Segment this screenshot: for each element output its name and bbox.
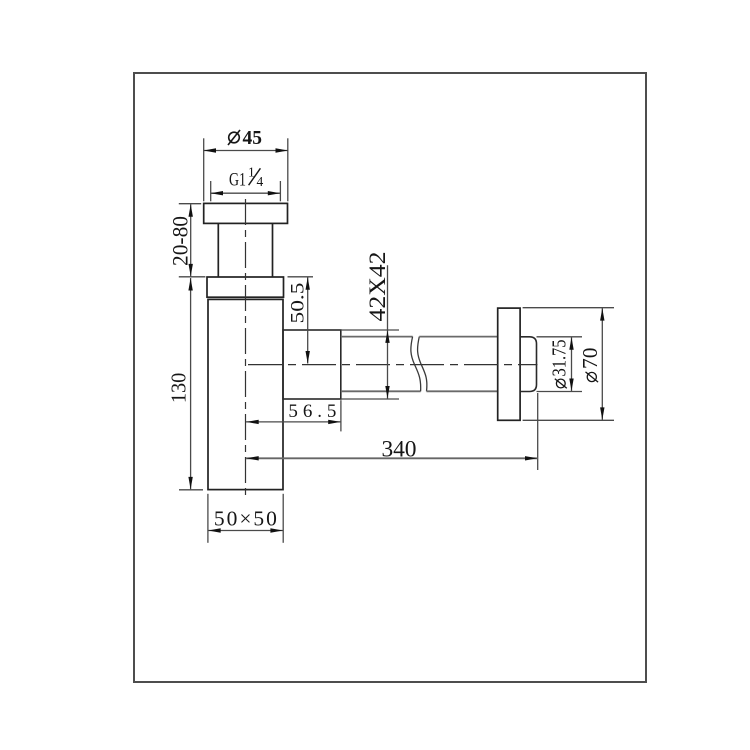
dim G1-1/4 arrow left (211, 191, 224, 195)
svg-text:50.5: 50.5 (288, 283, 309, 324)
trap body cup 50x50 (208, 299, 283, 489)
dim 42X42 arrow up (385, 330, 389, 343)
wall flange disc (498, 308, 520, 420)
svg-text:70: 70 (578, 348, 602, 370)
dim 130 dimension line (190, 278, 192, 489)
dim 340 extension line right (537, 393, 539, 470)
dim D70 arrow down (600, 407, 604, 420)
dim 42X42 extension line top (341, 329, 399, 331)
dim 20-80 extension line top (179, 203, 201, 205)
dim D45 arrow left (204, 148, 217, 152)
dim 42X42 arrow down (385, 386, 389, 399)
dim G1-1/4 arrow right (268, 191, 281, 195)
svg-text:45: 45 (243, 128, 263, 149)
svg-text:340: 340 (382, 436, 417, 462)
dim D31.75 arrow up (569, 337, 573, 350)
dim G1-1/4 fraction slash (249, 168, 261, 185)
outlet pipe segment 1 edges (341, 337, 421, 392)
vertical center line (245, 199, 247, 495)
dim D31.75 extension lines (537, 337, 583, 392)
svg-text:50×50: 50×50 (214, 507, 277, 531)
dim 42X42 dimension line (387, 265, 389, 398)
dim 50.5 arrow up (306, 277, 310, 290)
dim 130 arrow up (188, 278, 192, 291)
dim 340 arrow left (246, 456, 259, 460)
drawing frame border (134, 73, 646, 682)
body top flange (207, 277, 284, 297)
svg-text:G1: G1 (229, 170, 246, 190)
dim 50x50 arrow right (270, 528, 283, 532)
dim D70 dimension line (601, 308, 603, 420)
dim D70 extension lines (523, 308, 614, 421)
svg-text:31.75: 31.75 (549, 340, 571, 377)
dim 50x50 extension lines (208, 494, 283, 543)
dim 20-80 arrow down (189, 264, 193, 277)
dim 130 extension line bottom (179, 489, 203, 491)
dim 50x50 arrow left (208, 528, 221, 532)
svg-text:20-80: 20-80 (168, 216, 193, 266)
dim 340 arrow right (525, 456, 538, 460)
dim G1-1/4 dimension line (210, 192, 280, 194)
dim 130 arrow down (188, 477, 192, 490)
dim 20-80 arrow up (189, 204, 193, 217)
dim 340 dimension line (246, 457, 538, 459)
threaded neck tube (218, 223, 272, 277)
dim 56.5 extension line right (340, 400, 342, 431)
dim 50.5 extension line top (288, 276, 314, 278)
dim D31.75 dimension line (571, 337, 573, 391)
dim 50x50 dimension line (208, 530, 283, 532)
dim G1-1/4 extension lines (211, 181, 281, 201)
dim D70 arrow up (600, 308, 604, 321)
pipe break squiggle (411, 337, 427, 392)
svg-text:130: 130 (167, 373, 191, 404)
dim D45 diameter symbol (228, 130, 240, 145)
dim 20-80 dimension line (190, 204, 192, 276)
dim 56.5 arrow right (328, 420, 341, 424)
dim 42X42 extension line bottom (341, 398, 399, 400)
dim D45 dimension line (203, 150, 288, 152)
dim D45 arrow right (276, 148, 289, 152)
outlet pipe segment 2 edges (419, 337, 497, 392)
dim D31.75 arrow down (569, 379, 573, 392)
top nut flange of bottle trap (204, 203, 288, 223)
shared extension line at body top (179, 276, 206, 278)
dim 56.5 arrow left (246, 420, 259, 424)
horizontal center line (248, 364, 538, 366)
svg-text:42X42: 42X42 (365, 252, 390, 322)
dim D31.75 label (549, 340, 571, 389)
dim 50.5 dimension line (307, 277, 309, 363)
dim 56.5 dimension line (246, 421, 341, 423)
dim D45 extension lines (204, 138, 288, 201)
outlet nut box 42x42 (283, 330, 341, 399)
wall bushing end piece (520, 337, 536, 392)
dim D70 label (578, 348, 602, 383)
dim 50.5 arrow down (306, 351, 310, 364)
svg-text:4: 4 (257, 174, 264, 189)
